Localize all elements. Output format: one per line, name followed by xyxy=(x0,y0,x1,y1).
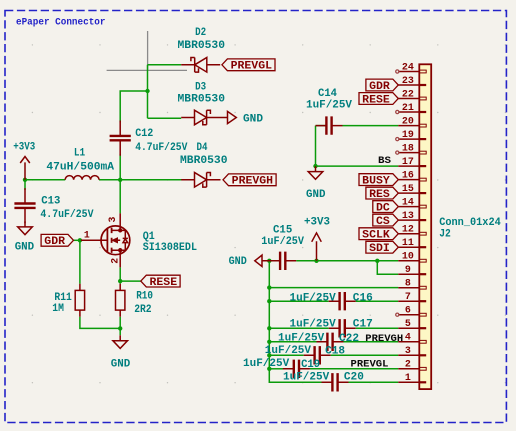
svg-text:11: 11 xyxy=(402,237,414,248)
junction pin9 stub xyxy=(375,259,379,263)
svg-text:C12: C12 xyxy=(135,128,153,140)
svg-text:D4: D4 xyxy=(197,142,208,154)
wire C22 to pin4 xyxy=(344,341,399,343)
global label PREVGH at D4 xyxy=(223,174,276,186)
wire R10 to GND xyxy=(119,317,121,335)
svg-text:1: 1 xyxy=(405,372,411,383)
svg-text:C20: C20 xyxy=(344,371,364,383)
global label SDI pin11 xyxy=(366,241,398,253)
svg-text:R10: R10 xyxy=(136,291,153,303)
global label RESE at Q1 source xyxy=(141,275,180,287)
wire bus to C19 xyxy=(269,368,283,370)
svg-text:PREVGH: PREVGH xyxy=(232,176,273,188)
pin 15 of J2 xyxy=(398,192,419,194)
resistor R10 xyxy=(119,284,121,317)
capacitor C14 xyxy=(316,125,343,127)
pin 19 of J2 xyxy=(398,138,419,140)
junction bus pin4 xyxy=(267,340,271,344)
svg-text:3: 3 xyxy=(107,217,118,223)
power symbol GND (under C13) xyxy=(18,221,33,234)
svg-text:23: 23 xyxy=(402,75,414,86)
pin 8 of J2 xyxy=(398,287,419,289)
svg-text:3: 3 xyxy=(405,345,411,356)
junction +3V3/pin10 wire xyxy=(314,259,318,263)
global label RESE pin22 xyxy=(359,93,398,105)
junction +3V3/L1/C13 xyxy=(23,178,27,182)
svg-text:2: 2 xyxy=(109,258,120,264)
pin 12 of J2 xyxy=(398,233,419,235)
svg-text:C18: C18 xyxy=(325,346,345,358)
svg-text:BS: BS xyxy=(378,155,391,167)
svg-text:7: 7 xyxy=(405,291,411,302)
svg-text:C13: C13 xyxy=(41,195,60,207)
svg-text:Conn_01x24: Conn_01x24 xyxy=(439,217,501,229)
capacitor C17 xyxy=(329,327,356,329)
svg-text:1: 1 xyxy=(84,229,90,240)
global label DC pin14 xyxy=(373,201,399,213)
svg-text:CS: CS xyxy=(376,216,390,228)
junction bus pin5 xyxy=(267,326,271,330)
svg-text:GDR: GDR xyxy=(369,81,390,93)
wire C12 bottom to node xyxy=(119,154,121,180)
svg-text:GND: GND xyxy=(306,189,326,201)
svg-text:2: 2 xyxy=(405,359,411,370)
svg-text:L1: L1 xyxy=(74,148,86,160)
wire C16 to pin7 xyxy=(356,300,399,302)
pin 21 of J2 xyxy=(398,111,419,113)
pin 18 of J2 xyxy=(398,152,419,154)
connector J2 Conn_01x24 body xyxy=(419,64,431,389)
junction R11/R10/GND xyxy=(118,326,122,330)
capacitor C15 xyxy=(269,260,296,262)
pin 11 of J2 xyxy=(398,246,419,248)
wire C15 to pin10 xyxy=(296,260,398,262)
pin 6 of J2 xyxy=(398,314,419,316)
pin 14 of J2 xyxy=(398,206,419,208)
wire gate node to R11 xyxy=(79,240,81,283)
pin 4 of J2 xyxy=(398,341,419,343)
wire bus to pin8 xyxy=(269,287,398,289)
junction D2/D3/C12 xyxy=(145,89,149,93)
junction bus pin7 xyxy=(267,299,271,303)
pin 10 of J2 xyxy=(398,260,419,262)
power symbol +3V3 (left) xyxy=(20,157,30,180)
transistor Q1 SI1308EDL xyxy=(81,213,130,267)
junction L1/C12/D4/Q1 xyxy=(118,178,122,182)
svg-text:9: 9 xyxy=(405,264,411,275)
svg-text:6: 6 xyxy=(405,305,411,316)
svg-text:15: 15 xyxy=(402,183,414,194)
svg-text:GND: GND xyxy=(111,359,131,371)
wire stub to pin9 xyxy=(377,261,398,274)
unconnected marker pin 6 xyxy=(396,313,399,316)
wire BS wire to pin17 xyxy=(316,165,399,167)
power symbol GND (under C14) xyxy=(308,166,323,179)
svg-text:1uF/25V: 1uF/25V xyxy=(261,236,304,248)
pin 24 of J2 xyxy=(398,71,419,73)
wire C14 left stub xyxy=(316,125,327,127)
wire to C12 top xyxy=(120,91,147,122)
svg-text:14: 14 xyxy=(402,197,414,208)
svg-text:GND: GND xyxy=(15,242,35,254)
svg-text:GND: GND xyxy=(243,113,263,125)
gray graphic line (horizontal) xyxy=(107,69,187,71)
svg-text:1M: 1M xyxy=(52,303,64,315)
pin 5 of J2 xyxy=(398,327,419,329)
capacitor C18 xyxy=(304,354,331,356)
svg-text:21: 21 xyxy=(402,102,414,113)
pin 13 of J2 xyxy=(398,219,419,221)
svg-text:PREVGL: PREVGL xyxy=(351,359,389,371)
wire bus vertical xyxy=(269,261,321,383)
svg-text:5: 5 xyxy=(405,318,411,329)
pin 9 of J2 xyxy=(398,273,419,275)
svg-text:DC: DC xyxy=(376,202,390,214)
wire bus to C22 xyxy=(269,341,316,343)
capacitor C12 xyxy=(119,121,121,156)
svg-text:22: 22 xyxy=(402,88,414,99)
pin 20 of J2 xyxy=(398,125,419,127)
svg-text:19: 19 xyxy=(402,129,414,140)
svg-text:1uF/25V: 1uF/25V xyxy=(278,333,325,345)
wire node to Q1 drain xyxy=(119,180,121,214)
junction C15/GND/bus xyxy=(267,259,271,263)
svg-text:1uF/25V: 1uF/25V xyxy=(265,345,312,357)
global label RES pin15 xyxy=(366,187,398,199)
gray graphic line (vertical) xyxy=(147,31,149,70)
capacitor C19 xyxy=(283,368,310,370)
junction gate/GDR/R11 xyxy=(78,238,82,242)
wire +3V3 to L1 xyxy=(25,179,65,181)
svg-text:C16: C16 xyxy=(353,292,373,304)
diode D2 xyxy=(181,64,220,66)
capacitor C22 xyxy=(317,341,344,343)
pin 22 of J2 xyxy=(398,98,419,100)
capacitor C13 xyxy=(24,188,26,223)
svg-text:16: 16 xyxy=(402,170,414,181)
svg-text:8: 8 xyxy=(405,278,411,289)
junction bus pin2 xyxy=(267,367,271,371)
svg-text:GND: GND xyxy=(229,256,248,268)
svg-text:C17: C17 xyxy=(353,319,373,331)
svg-text:BUSY: BUSY xyxy=(362,175,390,187)
svg-text:SDI: SDI xyxy=(369,243,390,255)
svg-text:1uF/25V: 1uF/25V xyxy=(243,358,290,370)
power symbol +3V3 (right) xyxy=(312,233,322,261)
power symbol GND (under R10/R11) xyxy=(113,335,128,348)
junction C14/GND/pin17 xyxy=(313,164,317,168)
global label PREVGL at D2 xyxy=(222,59,275,71)
junction source/RESE/R10 xyxy=(118,279,122,283)
svg-text:47uH/500mA: 47uH/500mA xyxy=(46,161,114,173)
capacitor C16 xyxy=(329,300,356,302)
svg-text:MBR0530: MBR0530 xyxy=(180,155,228,167)
svg-text:1uF/25V: 1uF/25V xyxy=(290,292,337,304)
svg-text:C15: C15 xyxy=(273,224,293,236)
svg-text:+3V3: +3V3 xyxy=(304,217,330,229)
global label BUSY pin16 xyxy=(359,174,398,186)
svg-text:PREVGL: PREVGL xyxy=(231,61,273,73)
svg-text:MBR0530: MBR0530 xyxy=(178,94,226,106)
power symbol GND (left of C15) xyxy=(255,255,269,266)
junction bus pin8 xyxy=(267,285,271,289)
svg-text:RES: RES xyxy=(369,189,390,201)
svg-text:RESE: RESE xyxy=(150,277,178,289)
pin 17 of J2 xyxy=(398,165,419,167)
wire C17 to pin5 xyxy=(356,327,399,329)
wire C14 to pin20 xyxy=(343,125,399,127)
pin 7 of J2 xyxy=(398,300,419,302)
svg-text:ePaper Connector: ePaper Connector xyxy=(16,16,106,27)
unconnected marker pin 24 xyxy=(396,70,399,73)
wire C19 to pin2 xyxy=(310,368,399,370)
wire C18 to pin3 xyxy=(331,354,399,356)
svg-text:+3V3: +3V3 xyxy=(13,142,35,154)
pin 2 of J2 xyxy=(398,368,419,370)
wire vertical D2/D3 xyxy=(147,65,149,118)
unconnected marker pin 19 xyxy=(396,138,399,141)
global label GDR at Q1 gate xyxy=(41,234,73,246)
svg-text:13: 13 xyxy=(402,210,414,221)
svg-text:4.7uF/25V: 4.7uF/25V xyxy=(40,209,93,221)
svg-text:C19: C19 xyxy=(301,359,320,371)
svg-text:1uF/25V: 1uF/25V xyxy=(306,100,352,112)
pin 23 of J2 xyxy=(398,84,419,86)
svg-text:SCLK: SCLK xyxy=(362,230,390,242)
svg-text:12: 12 xyxy=(402,224,414,235)
global label GDR pin23 xyxy=(366,79,398,91)
capacitor C20 xyxy=(322,381,349,383)
svg-text:PREVGH: PREVGH xyxy=(365,333,403,345)
svg-text:10: 10 xyxy=(402,251,414,262)
svg-text:GDR: GDR xyxy=(44,236,65,248)
svg-text:RESE: RESE xyxy=(362,94,390,106)
svg-text:C22: C22 xyxy=(339,333,359,345)
svg-text:J2: J2 xyxy=(439,229,451,241)
svg-text:24: 24 xyxy=(402,61,414,72)
wire bus to C16 xyxy=(269,300,328,302)
svg-text:4: 4 xyxy=(405,332,411,343)
global label SCLK pin12 xyxy=(359,228,398,240)
svg-text:D3: D3 xyxy=(195,82,206,94)
pin 16 of J2 xyxy=(398,179,419,181)
wire C20 to pin1 xyxy=(349,381,399,383)
svg-text:SI1308EDL: SI1308EDL xyxy=(143,242,198,254)
wire source node to RESE xyxy=(120,280,141,282)
wire bus to C18 xyxy=(269,354,303,356)
svg-text:2R2: 2R2 xyxy=(134,304,151,316)
wire bus to C17 xyxy=(269,327,328,329)
svg-text:C14: C14 xyxy=(318,88,337,100)
svg-text:4.7uF/25V: 4.7uF/25V xyxy=(135,142,188,154)
wire C14 left down xyxy=(315,126,317,167)
pin 1 of J2 xyxy=(398,381,419,383)
wire R11 to GND node xyxy=(80,317,120,329)
wire to D3 xyxy=(148,117,182,119)
svg-text:17: 17 xyxy=(402,156,414,167)
pin 3 of J2 xyxy=(398,354,419,356)
inductor L1 xyxy=(65,176,99,180)
wire node to C13 xyxy=(24,180,26,190)
svg-text:18: 18 xyxy=(402,143,414,154)
junction bus pin3 xyxy=(267,353,271,357)
svg-text:1uF/25V: 1uF/25V xyxy=(283,371,330,383)
wire to D2 xyxy=(148,64,182,66)
svg-text:D2: D2 xyxy=(195,27,206,39)
diode D4 xyxy=(181,179,220,181)
wire L1 to D4/node xyxy=(99,179,182,181)
wire GDR label to gate xyxy=(74,239,82,241)
global label CS pin13 xyxy=(373,214,399,226)
svg-text:20: 20 xyxy=(402,116,414,127)
svg-text:1uF/25V: 1uF/25V xyxy=(290,319,337,331)
resistor R11 xyxy=(79,284,81,317)
power symbol GND (right of D3) xyxy=(221,111,237,123)
unconnected marker pin 18 xyxy=(396,151,399,154)
wire Q1 source to R10 xyxy=(119,267,121,283)
unconnected marker pin 21 xyxy=(396,110,399,113)
svg-text:MBR0530: MBR0530 xyxy=(178,40,226,52)
diode D3 xyxy=(181,117,220,119)
